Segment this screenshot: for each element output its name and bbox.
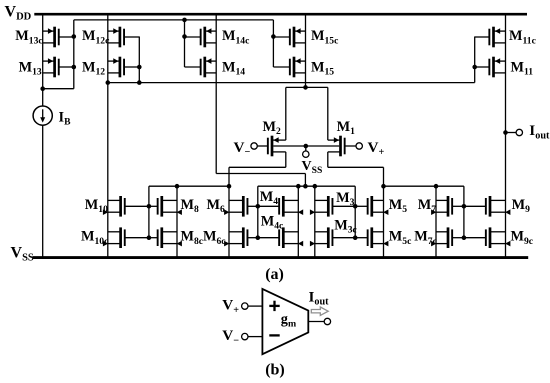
node b output terminal [324,318,330,324]
transistor M12c [119,27,122,48]
wire M6-M4 gate wire [257,186,259,238]
wire M14 column [215,14,217,173]
wire M1 drain route [328,166,384,168]
junction M11 gate [472,65,477,70]
wire IB to VSS [42,125,44,257]
junction M10-M8 gates [147,204,152,209]
transistor M6 [242,196,245,217]
transistor M14 [203,57,206,78]
wire M12 drain to M11 gate line [108,82,475,84]
transistor M10 [119,196,122,217]
junction M14 route node [303,184,308,189]
junction M7 drain tap [434,184,439,189]
wire M3 column [314,186,316,257]
wire M1 source up [327,87,329,140]
wire M14 gate wire [184,20,186,67]
transistor M4 [282,196,285,217]
junction M8 drain tap [175,184,180,189]
transistor M7c [447,227,450,248]
junction M3c-M5c gates [353,235,358,240]
transistor M5c [370,227,373,248]
transistor M13c [53,27,56,48]
junction IB node [40,86,45,91]
transistor M1 gate lead [345,145,356,147]
transistor M14c [203,27,206,48]
wire left summing line [149,185,229,187]
junction M3 drain tap [313,184,318,189]
transistor M3 [327,196,330,217]
junction M6c-M4c gates [255,235,260,240]
wire bulk VSS stub [305,146,307,151]
wire M14 drain route horizontal [216,173,305,175]
wire node A line [258,185,355,187]
junction M15c gate [271,34,276,39]
node b V+ terminal [242,303,248,309]
wire M7-M9 gate wire [463,186,465,238]
wire VSS rail [33,256,529,259]
junction M12 drain [106,80,111,85]
wire b V- lead [248,336,262,338]
junction M14 gate tap [182,18,187,23]
wire M15 gate wire [272,20,274,67]
wire tail bracket [286,86,328,88]
wire M14 drain route drop [304,174,306,187]
svg-text:(a): (a) [265,266,284,283]
junction M1 drain node [381,184,386,189]
transistor M10c [119,227,122,248]
op-amp gray current arrow [311,307,328,315]
wire M15 column [305,14,307,87]
transistor M15 [293,57,296,78]
transistor M3c [327,227,330,248]
junction M13c gate [72,34,77,39]
svg-text:(b): (b) [265,361,285,378]
wire VDD rail [34,13,527,16]
junction M6-M4 gates [255,204,260,209]
wire M12 gate wire [138,37,140,83]
wire M11-M9 output column [505,14,507,257]
junction M7-M9 gates [462,204,467,209]
current source IB [33,106,52,125]
transistor M8c [160,227,163,248]
op-amp plus sign [269,305,279,307]
wire PMOS gate bias line [74,19,274,21]
wire M2 drain route [229,166,286,168]
junction M7c-M9c gates [462,235,467,240]
wire M3-M5 gate wire [354,186,356,238]
junction Iout node [503,130,508,135]
transistor M12 [119,57,122,78]
wire IB node horizontal [43,88,74,90]
junction M13 gate [72,65,77,70]
transistor M1 [339,136,342,157]
node b V- terminal [242,333,248,339]
op-amp minus sign [269,334,279,336]
transistor M6c [242,227,245,248]
transistor M15c [293,27,296,48]
junction M12 gate [137,65,142,70]
node bulk VSS terminal [303,151,309,157]
wire M10-M8 gate wire [148,186,150,238]
wire Iout stub [506,132,517,134]
wire M8 column [176,186,178,257]
transistor M11c [492,27,495,48]
wire M7 column [435,186,437,257]
op-amp gm body [262,289,308,354]
junction M3-M5 gates [353,204,358,209]
wire b output lead [308,321,324,323]
transistor M2 [271,136,274,157]
wire M11 gate wire [474,37,476,83]
wire M13 gate wire [73,20,75,89]
junction tail node [303,85,308,90]
node V- input terminal [251,143,257,149]
transistor M13 [53,57,56,78]
wire b V+ lead [248,305,262,307]
transistor M4c [282,227,285,248]
wire M2 drain down [285,152,287,167]
wire M13 column upper [42,14,44,89]
transistor M2 gate lead [257,145,268,147]
transistor M7 [447,196,450,217]
junction bulk node [304,144,309,149]
node Iout terminal [516,129,522,135]
wire M6 column [228,167,230,257]
wire M4 column [297,186,299,257]
wire M5 column [383,167,385,257]
junction M14c gate [182,34,187,39]
junction M10c-M8c gates [147,235,152,240]
transistor M9 [489,196,492,217]
wire M12-M10 column [107,14,109,257]
junction M12 diode [137,80,142,85]
transistor M5 [370,196,373,217]
wire node B line [384,185,464,187]
transistor M11 [492,57,495,78]
wire M1 drain down [327,152,329,167]
wire bulk line M2-M1 [273,145,339,147]
transistor M9c [489,227,492,248]
node V+ input terminal [356,143,362,149]
wire M2 source up [285,87,287,140]
wire M13 drain node to IB [42,89,44,106]
transistor M8 [160,196,163,217]
junction M2 drain node [227,184,232,189]
junction M4 drain tap [296,184,301,189]
